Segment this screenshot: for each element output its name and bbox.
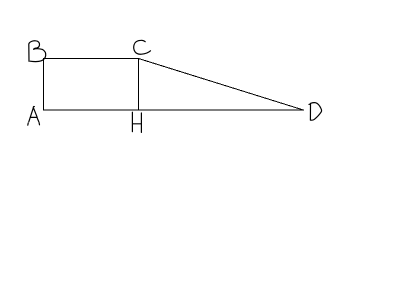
wire left edge B-A	[43, 58, 45, 111]
node A	[28, 106, 40, 125]
wire vertical C-H	[138, 58, 140, 111]
node H	[132, 112, 141, 132]
node C	[134, 40, 151, 54]
node B	[29, 41, 46, 62]
wire top edge B-C	[43, 58, 139, 60]
wire diagonal C-D	[139, 59, 305, 111]
node D	[309, 103, 322, 121]
wire bottom line A-H-D	[43, 109, 304, 111]
